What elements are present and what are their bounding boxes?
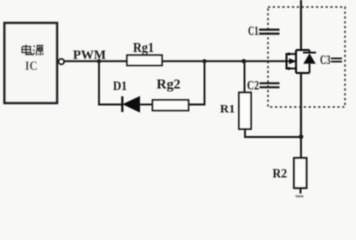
svg-text:C3: C3 <box>320 53 331 67</box>
resistor Rg1 <box>127 55 162 65</box>
capacitor C1 <box>259 30 280 34</box>
svg-text:PWM: PWM <box>73 47 106 62</box>
wire: Rg2 up to main wire <box>189 61 205 104</box>
wire: R2 bottom lead <box>300 188 302 194</box>
capacitor C3 <box>331 58 342 61</box>
resistor Rg2 <box>153 100 189 111</box>
gate bar <box>286 53 288 70</box>
svg-text:C2: C2 <box>247 79 259 93</box>
node junction under PWM <box>97 59 101 63</box>
diode D1 <box>122 96 139 112</box>
top connector <box>296 49 310 51</box>
channel vertical <box>295 50 297 73</box>
wire: down to R1 <box>244 61 246 92</box>
resistor R1 <box>239 93 251 130</box>
wire: R1 bottom to source junction <box>245 129 301 137</box>
电 <box>22 45 32 56</box>
label 电源 (drawn strokes) <box>22 45 44 56</box>
stub blobs <box>288 53 291 56</box>
node junction right of Rg1 <box>202 59 206 63</box>
wire: drain line from top <box>300 0 302 50</box>
transistor MOSFET <box>287 50 310 73</box>
capacitor C2 <box>260 83 280 87</box>
ground remnant <box>296 195 304 197</box>
svg-text:D1: D1 <box>113 78 127 93</box>
dashed MOSFET model box <box>268 7 345 107</box>
wire: source line down to junction <box>300 73 302 137</box>
wire: junction to R2 <box>300 137 302 159</box>
bottom connector <box>296 72 310 74</box>
svg-text:IC: IC <box>25 58 38 73</box>
svg-text:Rg2: Rg2 <box>157 77 181 92</box>
源 <box>33 46 44 56</box>
wire: left drop of bypass branch <box>99 61 122 104</box>
IC box (power supply IC) <box>5 23 58 103</box>
resistor R2 <box>294 158 307 188</box>
body arrow <box>289 59 296 64</box>
wire: diode to Rg2 <box>140 104 153 106</box>
svg-text:R1: R1 <box>220 102 235 116</box>
body diode of MOSFET <box>303 50 316 73</box>
wire: PWM node to gate (main horizontal) <box>64 60 286 62</box>
svg-text:R2: R2 <box>273 166 288 181</box>
channel stubs <box>288 53 297 55</box>
node junction at gate branch <box>242 59 246 63</box>
svg-text:C1: C1 <box>248 24 259 38</box>
PWM output node circle <box>59 59 65 65</box>
svg-text:Rg1: Rg1 <box>133 40 154 55</box>
node junction source/R2 <box>299 135 304 140</box>
